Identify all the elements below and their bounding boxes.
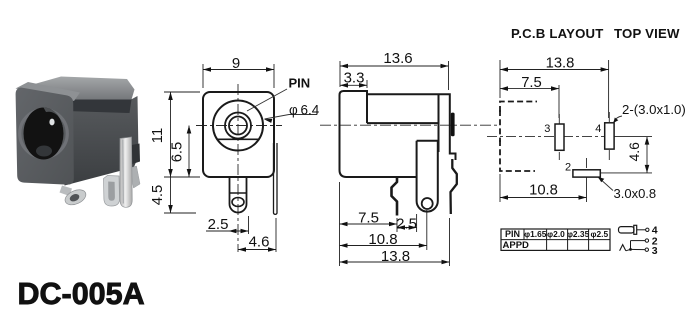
svg-text:2-(3.0x1.0): 2-(3.0x1.0) xyxy=(622,102,686,117)
svg-text:φ2.0: φ2.0 xyxy=(547,229,565,239)
svg-text:4: 4 xyxy=(595,123,601,135)
svg-text:TOP VIEW: TOP VIEW xyxy=(614,26,680,41)
svg-text:2: 2 xyxy=(565,162,571,174)
svg-text:φ 6.4: φ 6.4 xyxy=(289,103,320,118)
svg-text:7.5: 7.5 xyxy=(358,210,379,227)
svg-text:3.3: 3.3 xyxy=(344,70,365,87)
svg-text:DC-005A: DC-005A xyxy=(18,277,145,311)
svg-text:φ2.5: φ2.5 xyxy=(590,229,608,239)
svg-text:9: 9 xyxy=(232,55,240,72)
svg-text:φ2.35: φ2.35 xyxy=(567,229,590,239)
svg-text:PIN: PIN xyxy=(289,76,311,91)
svg-text:13.8: 13.8 xyxy=(381,248,410,265)
svg-text:4.5: 4.5 xyxy=(150,185,166,206)
svg-text:11: 11 xyxy=(150,128,166,143)
svg-text:P.C.B LAYOUT: P.C.B LAYOUT xyxy=(511,26,604,41)
svg-text:13.8: 13.8 xyxy=(546,56,575,72)
svg-text:PIN: PIN xyxy=(505,229,520,239)
svg-text:φ1.65: φ1.65 xyxy=(524,229,547,239)
svg-text:2.5: 2.5 xyxy=(396,216,417,233)
svg-text:3: 3 xyxy=(652,245,658,257)
svg-text:7.5: 7.5 xyxy=(521,75,542,91)
svg-text:4.6: 4.6 xyxy=(626,142,642,162)
svg-text:APPD: APPD xyxy=(503,240,530,251)
svg-text:3: 3 xyxy=(544,123,550,135)
svg-text:10.8: 10.8 xyxy=(368,231,397,248)
svg-text:3.0x0.8: 3.0x0.8 xyxy=(614,186,657,201)
svg-text:6.5: 6.5 xyxy=(170,142,186,163)
svg-text:2.5: 2.5 xyxy=(208,216,229,233)
svg-text:4.6: 4.6 xyxy=(249,234,270,251)
svg-text:10.8: 10.8 xyxy=(529,183,558,199)
svg-text:13.6: 13.6 xyxy=(383,50,412,67)
